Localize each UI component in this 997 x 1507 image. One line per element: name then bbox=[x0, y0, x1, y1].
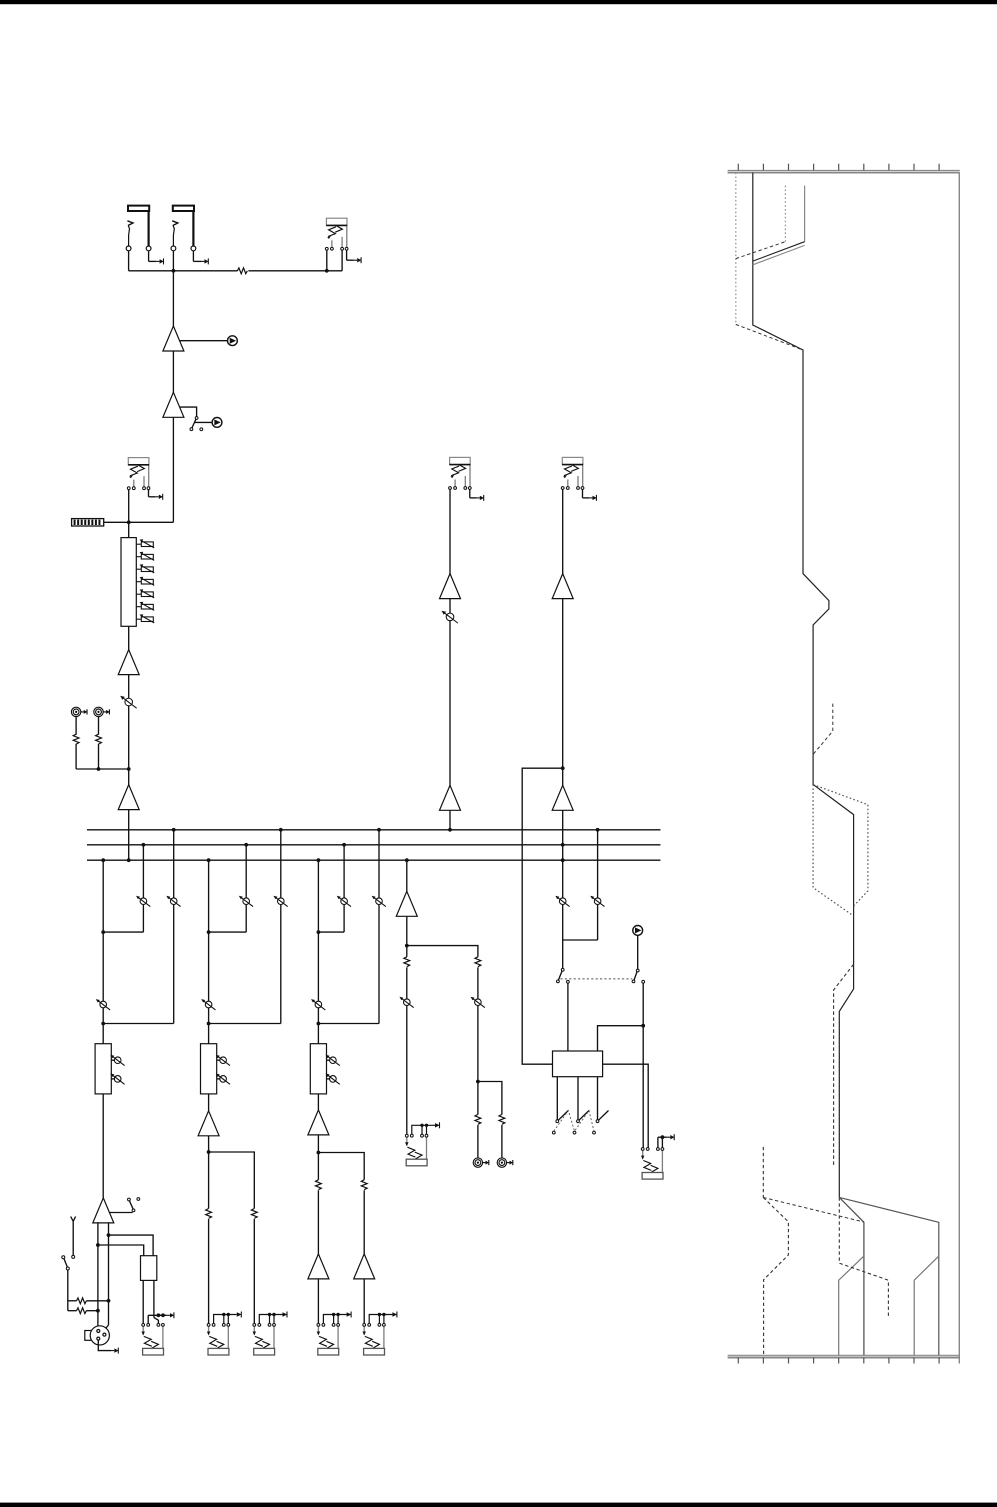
wire C3 to SW5 bbox=[637, 935, 639, 969]
channel-3 bus tap wires bbox=[317, 860, 319, 932]
switch SW6 bbox=[556, 1077, 558, 1120]
input jack J6 bbox=[561, 457, 584, 489]
wire EQ chain vertical bbox=[128, 522, 130, 860]
channel-3 pot P3 bbox=[311, 999, 325, 1010]
op-amp U13 bbox=[552, 574, 573, 599]
RCA output 1 bbox=[473, 1158, 489, 1167]
connector circle C2 bbox=[212, 418, 222, 428]
bus line 2 (mid) bbox=[87, 844, 661, 846]
master-R pot P6 bbox=[562, 940, 564, 968]
aux rca split wire bbox=[478, 1082, 502, 1158]
channel-1 main drop wire bbox=[102, 932, 104, 1044]
aux out jack B bbox=[253, 1324, 276, 1356]
op-amp U6 bbox=[198, 1111, 219, 1136]
channel-2 pot P1 bbox=[239, 896, 253, 907]
harness braid dotted right bbox=[813, 785, 868, 907]
resistor R3 bbox=[205, 1209, 212, 1220]
switch SW5 bbox=[636, 969, 639, 972]
EQ trimmer 6 bbox=[136, 602, 154, 611]
resistor R1 row bbox=[68, 1300, 77, 1302]
ground arrow J6 bbox=[582, 489, 584, 498]
op-amp U4 bbox=[118, 785, 139, 810]
power amp U9 bbox=[363, 1254, 365, 1279]
channel-2 merge wire y=1023.5 bbox=[209, 1023, 281, 1025]
aux pot P5 bbox=[471, 997, 485, 1008]
junction dot J4/row bbox=[127, 520, 131, 524]
op-amp U14 bbox=[552, 785, 573, 810]
mono input jack J1 bbox=[126, 206, 151, 251]
wire SW4 to block bbox=[567, 983, 569, 1051]
channel-2 fader pot B bbox=[217, 1078, 220, 1080]
graphic EQ block bbox=[121, 538, 136, 627]
channel-2 wire fader to amp bbox=[208, 1094, 210, 1111]
RCA output 2 bbox=[497, 1158, 513, 1167]
resistor R10 bbox=[499, 1114, 506, 1125]
junction dot chain/bus3 bbox=[127, 858, 131, 862]
monitor level block bbox=[141, 1256, 157, 1281]
channel-2 fader block bbox=[201, 1044, 217, 1094]
resistor on tape bus bbox=[237, 267, 248, 274]
harness foot out7 bbox=[914, 1256, 939, 1355]
ribbon connector bbox=[72, 519, 104, 526]
junction dot RCA2/row bbox=[97, 767, 101, 771]
EQ trimmer 1 bbox=[136, 539, 154, 548]
channel-2 pot P3 bbox=[201, 999, 215, 1010]
harness dashed shallow branch bbox=[763, 1198, 864, 1223]
EQ trimmer 5 bbox=[136, 589, 154, 598]
switch SW1 bbox=[195, 417, 198, 420]
junction dot insert/bus bbox=[325, 269, 329, 273]
top black header bar bbox=[0, 0, 997, 4]
harness dotted stub vertical bbox=[784, 186, 786, 242]
ground arrow J1 bbox=[148, 251, 150, 262]
channel-2 merge wire y=932.1 bbox=[209, 931, 247, 933]
input jack J5 bbox=[449, 457, 472, 489]
panel bottom ruler bbox=[728, 1354, 960, 1356]
channel-1 merge wire y=1023.5 bbox=[103, 1023, 174, 1025]
panel top ticks bbox=[737, 164, 739, 171]
phantom symbol Y bbox=[71, 1217, 76, 1222]
harness braid dashed leave bbox=[834, 964, 854, 1167]
channel-1 merge wire y=932.1 bbox=[103, 931, 143, 933]
harness fan to out5 bbox=[839, 1197, 864, 1355]
wire RCA row y=769 bbox=[76, 768, 129, 770]
power amp U8 bbox=[317, 1254, 319, 1279]
aux send jack bbox=[405, 1134, 428, 1166]
harness black diagonal stub bbox=[753, 242, 805, 261]
channel-3 merge wire y=932.1 bbox=[318, 931, 344, 933]
channel-1 tap junction dots bbox=[101, 858, 105, 862]
bottom black footer bar bbox=[0, 1503, 997, 1507]
wire monitor feed A y=1235.1 bbox=[109, 1235, 154, 1256]
harness braid dotted left bbox=[813, 785, 854, 917]
harness dashed lower-left entry bbox=[762, 1147, 764, 1198]
mono input jack J2 bbox=[171, 206, 196, 251]
op-amp U11 bbox=[440, 574, 461, 599]
op-amp U12 bbox=[440, 785, 461, 810]
stereo insert jack J3 bbox=[325, 218, 348, 250]
resistor R7 bbox=[403, 957, 410, 968]
wire SW1 to connector C2 bbox=[195, 421, 213, 423]
channel-2 fader pot A bbox=[217, 1059, 220, 1061]
channel-1 bus tap wires bbox=[102, 860, 104, 932]
switch SW2 wire bbox=[109, 1212, 132, 1214]
harness grey diagonal stub bbox=[753, 245, 805, 264]
channel-1 fader block bbox=[95, 1044, 111, 1094]
channel-3 main drop wire bbox=[317, 932, 319, 1044]
channel-2 main drop wire bbox=[208, 932, 210, 1044]
aux out jack A bbox=[207, 1324, 230, 1356]
EQ trimmer 3 bbox=[136, 564, 154, 573]
wire SW3 down bbox=[67, 1270, 69, 1311]
effects block bbox=[553, 1051, 603, 1077]
resistor R5 bbox=[315, 1180, 322, 1191]
harness dotted alt top bbox=[735, 173, 737, 325]
wire U2 to switch SW1 bbox=[180, 407, 197, 417]
resistor R6 bbox=[361, 1180, 368, 1191]
switch SW4 bbox=[561, 968, 564, 971]
junction dot J2/bus bbox=[172, 269, 176, 273]
wire U5 outputs down bbox=[97, 1222, 99, 1331]
harness dashed steep branch bbox=[763, 1198, 788, 1356]
ground arrow J3 bbox=[346, 250, 348, 260]
harness foot out4 bbox=[839, 1256, 864, 1355]
channel-2 tap junction dots bbox=[207, 858, 211, 862]
wire monitor feed B y=1245 bbox=[98, 1245, 144, 1256]
ground arrow J5 bbox=[469, 489, 471, 498]
input jack J4 bbox=[127, 458, 150, 490]
harness grey stub vertical bbox=[804, 186, 806, 242]
channel-3 merge wire y=1023.5 bbox=[318, 1023, 379, 1025]
XLR output connector bbox=[85, 1326, 110, 1345]
channel-2 bus tap wires bbox=[208, 860, 210, 932]
channel-3 tap junction dots bbox=[317, 858, 321, 862]
harness fan to out8 bbox=[839, 1197, 939, 1355]
wire block out to phones jack pin2 bbox=[603, 1064, 649, 1147]
power amp U5 bbox=[93, 1198, 114, 1223]
wire tape-input bus y=270.8 bbox=[128, 251, 130, 271]
resistor R8 bbox=[475, 957, 482, 968]
wire monitor block to jack bbox=[142, 1280, 144, 1323]
wire U1 output to connector bbox=[180, 340, 228, 342]
op-amp U1 bbox=[163, 326, 184, 351]
op-amp U2 bbox=[163, 392, 184, 417]
wire jack J4 pin1 down bbox=[128, 490, 130, 523]
ground arrow phones jack bbox=[657, 1137, 659, 1147]
RCA input 1 bbox=[75, 717, 77, 769]
phones jack bbox=[641, 1148, 664, 1180]
channel-1 pot P3 bbox=[96, 999, 110, 1010]
main out jack L bbox=[317, 1324, 340, 1356]
ground arrow monitor jack bbox=[147, 1315, 149, 1323]
op-amp U7 bbox=[308, 1110, 329, 1135]
harness dashed stub mid bbox=[813, 704, 833, 755]
monitor out jack bbox=[142, 1324, 165, 1356]
phones tap wire bbox=[597, 830, 599, 940]
wire amps to jacks bbox=[317, 1279, 319, 1324]
junction dot row/chain bbox=[127, 767, 131, 771]
channel-2 pot P2 bbox=[273, 896, 287, 907]
ground arrow J2 bbox=[192, 251, 194, 262]
bus line 3 (bottom) bbox=[87, 859, 661, 861]
harness dashed from fan bbox=[839, 1197, 888, 1317]
switch SW8 bbox=[597, 1077, 599, 1120]
wire XLR right pin bbox=[104, 1325, 108, 1333]
channel-3 pot P2 bbox=[372, 896, 386, 907]
channel-1 fader pot B bbox=[111, 1078, 114, 1080]
channel-3 split wire bbox=[317, 1135, 319, 1254]
op-amp U3 bbox=[118, 650, 139, 675]
channel-1 pot P1 bbox=[136, 896, 150, 907]
resistor R2 row bbox=[68, 1310, 77, 1312]
op-amp U10 bbox=[396, 891, 417, 916]
harness main solid line bbox=[753, 173, 854, 1198]
channel-3 wire fader to amp bbox=[317, 1094, 319, 1110]
channel-1 pot P2 bbox=[166, 896, 180, 907]
channel-3 fader pot A bbox=[327, 1059, 330, 1061]
wire main chain vertical bbox=[172, 271, 174, 523]
channel-1 wire fader to power-amp bbox=[102, 1094, 104, 1198]
RCA input 2 bbox=[98, 717, 100, 769]
connector circle C1 bbox=[228, 336, 238, 346]
panel top ruler bbox=[728, 169, 960, 171]
gang dashed link block switches bbox=[554, 1111, 594, 1132]
switch SW3 bbox=[62, 1256, 65, 1259]
ground arrow XLR bbox=[98, 1340, 111, 1351]
panel bottom ticks bbox=[737, 1358, 739, 1364]
main out jack R bbox=[363, 1324, 386, 1356]
channel-2 split wire bbox=[208, 1136, 210, 1324]
EQ trimmer 7 bbox=[136, 614, 154, 623]
EQ trimmer 4 bbox=[136, 577, 154, 586]
switch SW2 bbox=[127, 1198, 130, 1201]
master-R chain wire bbox=[562, 489, 564, 940]
channel-1 fader pot A bbox=[111, 1059, 114, 1061]
switch SW7 bbox=[577, 1077, 579, 1120]
ground arrow J4 bbox=[148, 490, 150, 497]
gang dashed link SW4-SW5 bbox=[560, 978, 632, 980]
resistor R4 bbox=[251, 1209, 258, 1220]
connector circle C3 bbox=[633, 926, 643, 936]
tape-out tap wire bbox=[522, 768, 563, 1064]
harness dashed join top bbox=[736, 324, 803, 350]
master-L chain wire bbox=[449, 489, 451, 829]
trim pot VR2 bbox=[441, 611, 457, 623]
aux tap wire bbox=[406, 860, 408, 1134]
harness dashed diagonal stub bbox=[736, 242, 786, 259]
bus line 1 (top) bbox=[87, 829, 661, 831]
wire SW5 to block and phones jack bbox=[642, 983, 644, 1147]
trim pot VR1 bbox=[120, 696, 136, 708]
panel right border bbox=[958, 173, 960, 1364]
channel-3 pot P1 bbox=[337, 896, 351, 907]
phones pot P7 bbox=[590, 896, 604, 907]
channel-3 fader pot B bbox=[327, 1078, 330, 1080]
wire jack J2 pin to bus bbox=[172, 251, 174, 271]
channel-3 fader block bbox=[310, 1044, 326, 1094]
aux pot P4 bbox=[399, 997, 413, 1008]
resistor R9 bbox=[475, 1114, 482, 1125]
EQ trimmer 2 bbox=[136, 552, 154, 561]
wire input row y=522.3 bbox=[104, 521, 174, 523]
junction dots master-R on buses bbox=[561, 843, 565, 847]
aux split wire bbox=[407, 946, 478, 1082]
